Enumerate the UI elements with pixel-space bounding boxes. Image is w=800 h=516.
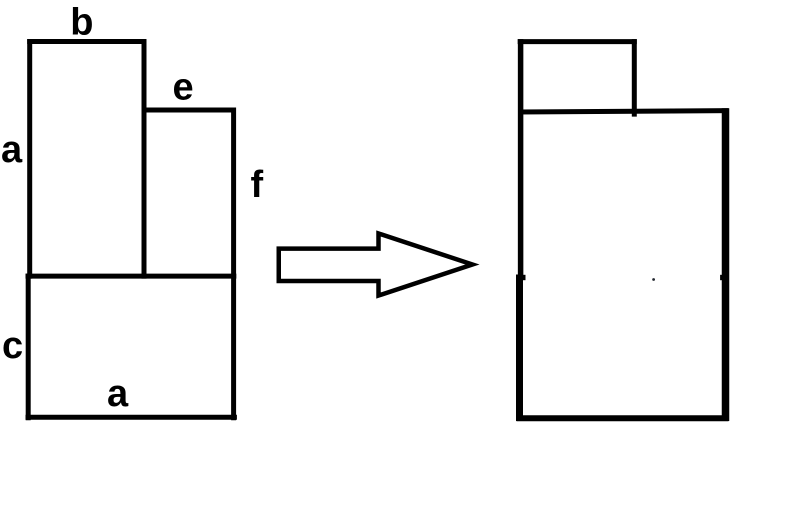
svg-text:a: a	[107, 373, 129, 415]
svg-text:f: f	[251, 164, 264, 206]
svg-text:e: e	[173, 66, 194, 108]
svg-text:c: c	[2, 325, 23, 367]
svg-text:a: a	[1, 129, 23, 171]
svg-text:b: b	[70, 2, 93, 44]
